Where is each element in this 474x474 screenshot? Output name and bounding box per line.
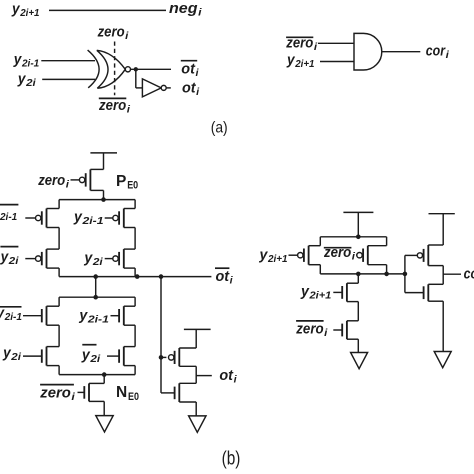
svg-text:zero: zero [323, 244, 351, 261]
svg-text:N: N [116, 384, 127, 401]
svg-text:i: i [127, 104, 130, 115]
svg-text:y: y [73, 208, 82, 225]
svg-text:ot: ot [216, 268, 231, 285]
svg-text:i: i [352, 252, 355, 263]
svg-text:2i+1: 2i+1 [267, 254, 288, 265]
svg-text:y: y [11, 1, 20, 18]
svg-text:i: i [125, 31, 128, 42]
svg-text:2i-1: 2i-1 [0, 212, 18, 223]
svg-text:neg: neg [169, 0, 198, 17]
svg-text:2i: 2i [10, 352, 21, 363]
svg-text:y: y [0, 249, 9, 266]
svg-text:y: y [259, 247, 268, 264]
svg-text:i: i [66, 179, 69, 190]
svg-text:y: y [78, 307, 87, 324]
svg-text:2i-1: 2i-1 [87, 315, 110, 326]
svg-text:P: P [116, 173, 126, 190]
svg-text:(b): (b) [222, 448, 241, 469]
svg-text:i: i [196, 87, 199, 98]
svg-text:y: y [2, 345, 11, 362]
svg-text:y: y [286, 52, 295, 69]
svg-text:i: i [446, 50, 449, 61]
svg-text:E0: E0 [127, 180, 138, 192]
svg-text:y: y [81, 346, 90, 363]
svg-text:2i: 2i [89, 354, 100, 365]
svg-text:2i: 2i [92, 257, 103, 268]
svg-text:2i-1: 2i-1 [81, 216, 104, 227]
svg-text:ot: ot [181, 61, 196, 78]
svg-text:y: y [17, 70, 26, 87]
svg-text:E0: E0 [128, 391, 139, 403]
svg-text:zero: zero [97, 23, 125, 40]
svg-text:2i-1: 2i-1 [21, 59, 40, 70]
svg-text:ot: ot [219, 367, 234, 384]
svg-text:y: y [83, 249, 92, 266]
svg-text:2i+1: 2i+1 [294, 59, 315, 70]
svg-text:zero: zero [39, 384, 70, 401]
svg-text:zero: zero [37, 172, 65, 189]
svg-text:2i-1: 2i-1 [4, 312, 23, 323]
svg-text:2i: 2i [25, 78, 36, 89]
svg-text:2i+1: 2i+1 [308, 291, 331, 302]
svg-text:i: i [324, 328, 327, 339]
svg-text:2i+1: 2i+1 [19, 8, 40, 19]
svg-text:2i: 2i [8, 256, 19, 267]
svg-text:ot: ot [182, 80, 197, 97]
svg-text:i: i [71, 392, 75, 403]
svg-text:y: y [13, 51, 22, 68]
svg-text:zero: zero [295, 320, 323, 337]
svg-text:y: y [300, 283, 309, 300]
svg-text:zero: zero [98, 97, 126, 114]
svg-text:i: i [234, 374, 237, 385]
svg-text:i: i [230, 276, 233, 287]
svg-text:i: i [198, 7, 202, 18]
svg-text:i: i [196, 68, 199, 79]
svg-text:cor: cor [426, 42, 446, 59]
svg-text:i: i [314, 42, 317, 53]
svg-text:(a): (a) [211, 119, 228, 136]
svg-text:cor: cor [464, 265, 474, 282]
